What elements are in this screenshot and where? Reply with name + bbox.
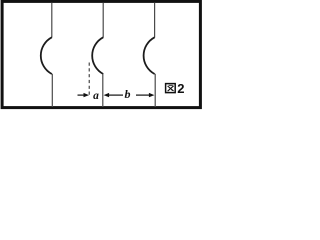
tube line 3 lower	[154, 74, 156, 107]
svg-text:b: b	[125, 87, 131, 101]
svg-text:a: a	[93, 90, 99, 102]
tube line 3 upper	[154, 3, 156, 38]
tube line 1 lower	[51, 74, 53, 107]
dimension a left arrow	[78, 93, 90, 97]
arc 3	[144, 37, 155, 74]
arc 1	[41, 37, 52, 74]
tube line 2 upper	[102, 3, 104, 38]
tube line 2 lower	[102, 74, 104, 107]
arc 2	[92, 37, 103, 74]
svg-text:2: 2	[177, 81, 184, 96]
dimension b right arrow (tip at line 3)	[136, 93, 154, 97]
caption glyph 图	[166, 84, 176, 93]
dimension b left arrow (tip at line 2)	[104, 93, 123, 97]
tube line 1 upper	[51, 3, 53, 38]
dashed guide line	[88, 63, 90, 97]
